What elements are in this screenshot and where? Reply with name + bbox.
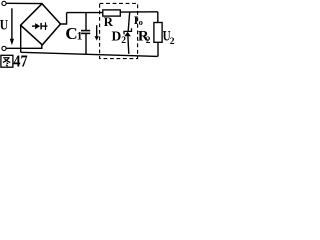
diode D inside bridge: [32, 22, 47, 30]
top rail left segment: [67, 12, 103, 14]
wire load bottom to rail: [157, 42, 159, 56]
wire from bridge left vertex down: [20, 25, 22, 52]
input terminal bottom: [2, 46, 6, 50]
wire top input: [6, 2, 42, 4]
voltage arrow U: [10, 8, 14, 45]
svg-text:2: 2: [170, 37, 175, 47]
bridge rectifier diamond: [21, 4, 61, 45]
wire bottom input: [6, 45, 42, 48]
top rail right segment: [120, 11, 158, 13]
wire top rail corner down to load: [157, 12, 159, 23]
caption 图 (drawn): [1, 55, 13, 67]
bottom rail (sloped): [21, 52, 158, 56]
svg-text:2: 2: [146, 36, 151, 46]
load resistor R2 (box): [154, 23, 162, 43]
plus polarity mark: [45, 22, 47, 30]
zener diode D2 branch: [124, 12, 132, 54]
svg-text:2: 2: [121, 36, 126, 46]
resistor R (box) in top rail: [103, 10, 121, 16]
svg-text:1: 1: [77, 31, 83, 43]
wire from bridge right vertex to top rail: [61, 13, 67, 24]
svg-text:o: o: [139, 17, 143, 27]
svg-text:U: U: [0, 16, 8, 33]
capacitor C1: [81, 13, 90, 55]
dashed box (regulator section): [100, 3, 138, 58]
input terminal top: [2, 1, 6, 5]
svg-text:R: R: [104, 14, 114, 29]
svg-text:D: D: [112, 29, 122, 44]
svg-text:47: 47: [13, 52, 27, 68]
discharge arrow (down) right of C1: [95, 25, 99, 40]
